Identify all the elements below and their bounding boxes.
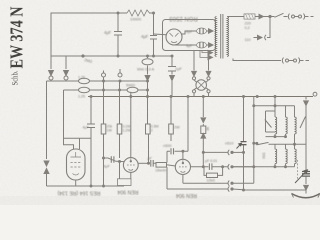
coil top wire	[254, 105, 295, 107]
plug arrow A2	[64, 56, 69, 76]
fuse oval F2	[79, 87, 90, 92]
transformer core	[221, 14, 223, 59]
bottom frame wire y187	[47, 185, 125, 187]
switch mains	[270, 13, 288, 17]
RGN internals	[170, 33, 179, 43]
RES164 pins	[74, 145, 80, 149]
vc arrow	[295, 170, 308, 183]
wave switch arm	[254, 142, 269, 145]
wire C1 column	[117, 13, 119, 56]
wire row y90	[64, 89, 148, 91]
wire mains bottom	[233, 59, 281, 61]
resistor box R3	[117, 124, 122, 134]
wire row y81	[47, 80, 148, 82]
svg-text:RES 164 (RE 134): RES 164 (RE 134)	[57, 190, 100, 196]
svg-text:n510: n510	[225, 141, 233, 145]
svg-text:REN 904: REN 904	[117, 189, 138, 195]
svg-text:4µF: 4µF	[141, 34, 149, 39]
tube2 bottom stem	[182, 175, 184, 184]
right column x306	[304, 97, 309, 172]
column x253.8	[253, 97, 255, 184]
resistor box R5	[146, 124, 151, 134]
coil L4	[275, 144, 277, 167]
svg-text:Wid 0,3 A: Wid 0,3 A	[137, 67, 154, 72]
wire box to tube2	[167, 165, 176, 166]
svg-text:12kΩ: 12kΩ	[207, 178, 216, 182]
svg-text:10000: 10000	[130, 17, 142, 22]
junction dots y81 y90	[103, 80, 105, 82]
dial lamp	[196, 80, 207, 91]
coil L5	[286, 144, 288, 167]
tube1 internals	[127, 159, 135, 171]
contact circles	[192, 77, 195, 80]
svg-text:0,2: 0,2	[245, 26, 250, 30]
coil mid wire	[266, 136, 286, 138]
plug arrow A1	[49, 56, 54, 76]
tube1 REN904	[123, 158, 138, 173]
svg-text:4µF: 4µF	[104, 165, 111, 169]
coil L2	[286, 106, 288, 137]
svg-text:550: 550	[262, 153, 266, 159]
transformer right winding	[227, 17, 229, 57]
coil L1	[275, 117, 277, 137]
grid wire y158	[104, 158, 125, 162]
wire cap to box	[153, 163, 156, 165]
tap wire y144.2	[269, 143, 307, 145]
main bus y96.5	[88, 96, 313, 98]
ground anchor	[292, 194, 320, 198]
dashed coupling link	[297, 160, 299, 181]
tube2 plate wire	[191, 166, 229, 168]
svg-text:Überbr: Überbr	[156, 169, 168, 173]
n500 cap plates	[171, 148, 174, 154]
plug arrow P2	[254, 35, 262, 39]
mains plug 2	[282, 58, 283, 64]
coil feed from bus	[274, 97, 276, 118]
svg-text:1,25: 1,25	[78, 76, 85, 80]
terminal T4	[118, 73, 122, 77]
tube RGN2503	[166, 29, 182, 45]
terminal T3	[102, 73, 106, 77]
arrow tap3	[208, 50, 212, 54]
arrow tap1	[209, 29, 214, 33]
oval Wid	[142, 59, 153, 65]
wire cap row2	[174, 44, 209, 46]
tube2 REN904	[175, 159, 190, 174]
wire heater column x63.5	[64, 90, 74, 149]
capacitor C4	[197, 28, 207, 34]
svg-text:µF 0,01: µF 0,01	[205, 159, 217, 163]
capacitor C2	[150, 36, 157, 40]
n500 wire	[167, 150, 188, 152]
box stem to frame	[123, 185, 125, 188]
column x147.5 R5	[148, 97, 149, 164]
wire C2 column	[153, 13, 155, 56]
title: Schb. EW 374 N	[7, 6, 27, 85]
speaker jack pair	[44, 161, 49, 186]
bus junction dots	[90, 96, 92, 98]
svg-text:1,2W: 1,2W	[123, 129, 132, 133]
switch arm L3	[300, 117, 306, 129]
plug arrow P1	[259, 14, 270, 18]
socket circle A1	[49, 76, 53, 80]
svg-text:REN 904: REN 904	[176, 192, 197, 198]
wire y138 heater	[64, 137, 92, 139]
terminal circle bus end	[313, 92, 317, 96]
column x243.5	[243, 97, 245, 191]
svg-text:1,25: 1,25	[78, 95, 85, 99]
column x188	[187, 97, 189, 152]
tube2 internals	[179, 160, 187, 172]
socket bracket B1	[228, 150, 229, 155]
socket circle A2	[64, 76, 68, 80]
grid cap plates	[111, 156, 114, 162]
wire cap row1	[182, 31, 209, 34]
jack junction wire y152.4	[203, 151, 228, 153]
output tube RES164	[67, 149, 86, 180]
svg-text:4µF: 4µF	[83, 126, 90, 130]
tube1 plate wire	[138, 162, 150, 164]
plate cap plates	[209, 163, 212, 170]
fuse oval F1	[79, 78, 90, 83]
fuse box mains	[244, 14, 255, 19]
svg-text:220: 220	[245, 22, 251, 26]
svg-text:4µF: 4µF	[186, 30, 193, 34]
capacitor C6	[87, 124, 95, 128]
wire 110 tap	[267, 17, 270, 38]
wire mains top	[227, 16, 244, 18]
wire top frame	[51, 13, 127, 68]
resistor box RC	[207, 173, 218, 177]
arrow tap4	[208, 55, 212, 59]
svg-text:Schb.: Schb.	[11, 71, 20, 86]
svg-text:W: W	[206, 127, 210, 131]
bottom wire y189	[167, 188, 228, 190]
junction	[269, 15, 271, 17]
wire lamp col left	[192, 51, 197, 77]
heater tap wires	[200, 51, 208, 58]
svg-text:5WΩ: 5WΩ	[126, 83, 135, 88]
column x103.5 R2	[103, 81, 105, 187]
wire cap column x172	[170, 56, 175, 97]
coil L3	[295, 106, 297, 145]
svg-text:n500: n500	[163, 144, 171, 148]
tube1 bottom stem	[130, 172, 132, 178]
grid leak box	[156, 163, 167, 168]
socket bracket B2	[228, 164, 229, 169]
resistor box R2	[101, 124, 106, 134]
variable capacitor plates	[302, 172, 310, 177]
ground wire y190	[244, 189, 307, 191]
svg-text:4µF: 4µF	[186, 44, 193, 48]
junction dots plate wire	[202, 166, 204, 168]
mains plug	[288, 14, 289, 20]
bottom wire y183.2	[183, 182, 228, 184]
RES164 bottom stem	[75, 180, 77, 186]
socket bracket B3	[228, 181, 229, 186]
socket bracket B4	[228, 186, 229, 191]
pin2 stub	[79, 138, 81, 149]
resistor oval 5W	[127, 87, 138, 92]
svg-text:2W: 2W	[174, 126, 180, 130]
column x171 R4	[170, 97, 172, 142]
RC loop	[204, 167, 223, 176]
column x91 cap C6	[90, 97, 92, 187]
shorting switch arm	[265, 120, 272, 128]
wire tube cathode	[154, 33, 167, 36]
trimmer arrow	[237, 143, 242, 148]
coil bottom wire	[232, 166, 295, 168]
wire fuse out	[255, 16, 259, 18]
junction dots bottom	[90, 185, 92, 187]
junction dots x243.5	[243, 151, 245, 153]
capacitor C3	[168, 67, 176, 72]
shorting bracket	[266, 111, 276, 132]
box RGN2503	[163, 20, 216, 51]
svg-text:1µF: 1µF	[175, 66, 183, 71]
transformer left winding	[215, 17, 217, 57]
arrow tap2	[209, 43, 214, 47]
socket arc P2	[265, 35, 266, 40]
column x130.8 tube1 stem	[130, 92, 132, 158]
column x119.5 R3	[119, 81, 121, 158]
svg-text:RGN 2503: RGN 2503	[169, 15, 198, 21]
box below tube1	[118, 179, 132, 186]
wire x119.5 to box	[119, 162, 121, 179]
coil L6	[295, 144, 297, 167]
capacitor C1	[114, 32, 122, 36]
svg-text:1W: 1W	[107, 129, 113, 133]
resistor R1 zigzag	[127, 10, 151, 16]
junction dots top	[117, 12, 119, 14]
resistor box R4	[169, 124, 174, 134]
wire speaker column	[46, 81, 48, 159]
trimmer cap plates	[241, 142, 247, 145]
svg-text:110: 110	[245, 38, 251, 42]
junction dots y56	[117, 55, 119, 57]
vc stem	[304, 177, 309, 194]
capacitor C5	[197, 42, 207, 48]
RES164 internals	[71, 152, 82, 175]
jack column x203.3	[202, 97, 204, 167]
tube2 top stem	[182, 151, 184, 159]
wire Wid column	[145, 56, 150, 97]
vertical x167	[166, 151, 168, 189]
svg-text:4µF: 4µF	[104, 30, 112, 35]
svg-text:EW 374 N: EW 374 N	[7, 6, 27, 68]
svg-text:2: 2	[151, 129, 153, 133]
coupling cap plates	[151, 160, 153, 167]
wire R1 to junction	[149, 12, 154, 14]
wire bus y56	[51, 55, 172, 57]
wire lamp col right	[206, 51, 211, 77]
